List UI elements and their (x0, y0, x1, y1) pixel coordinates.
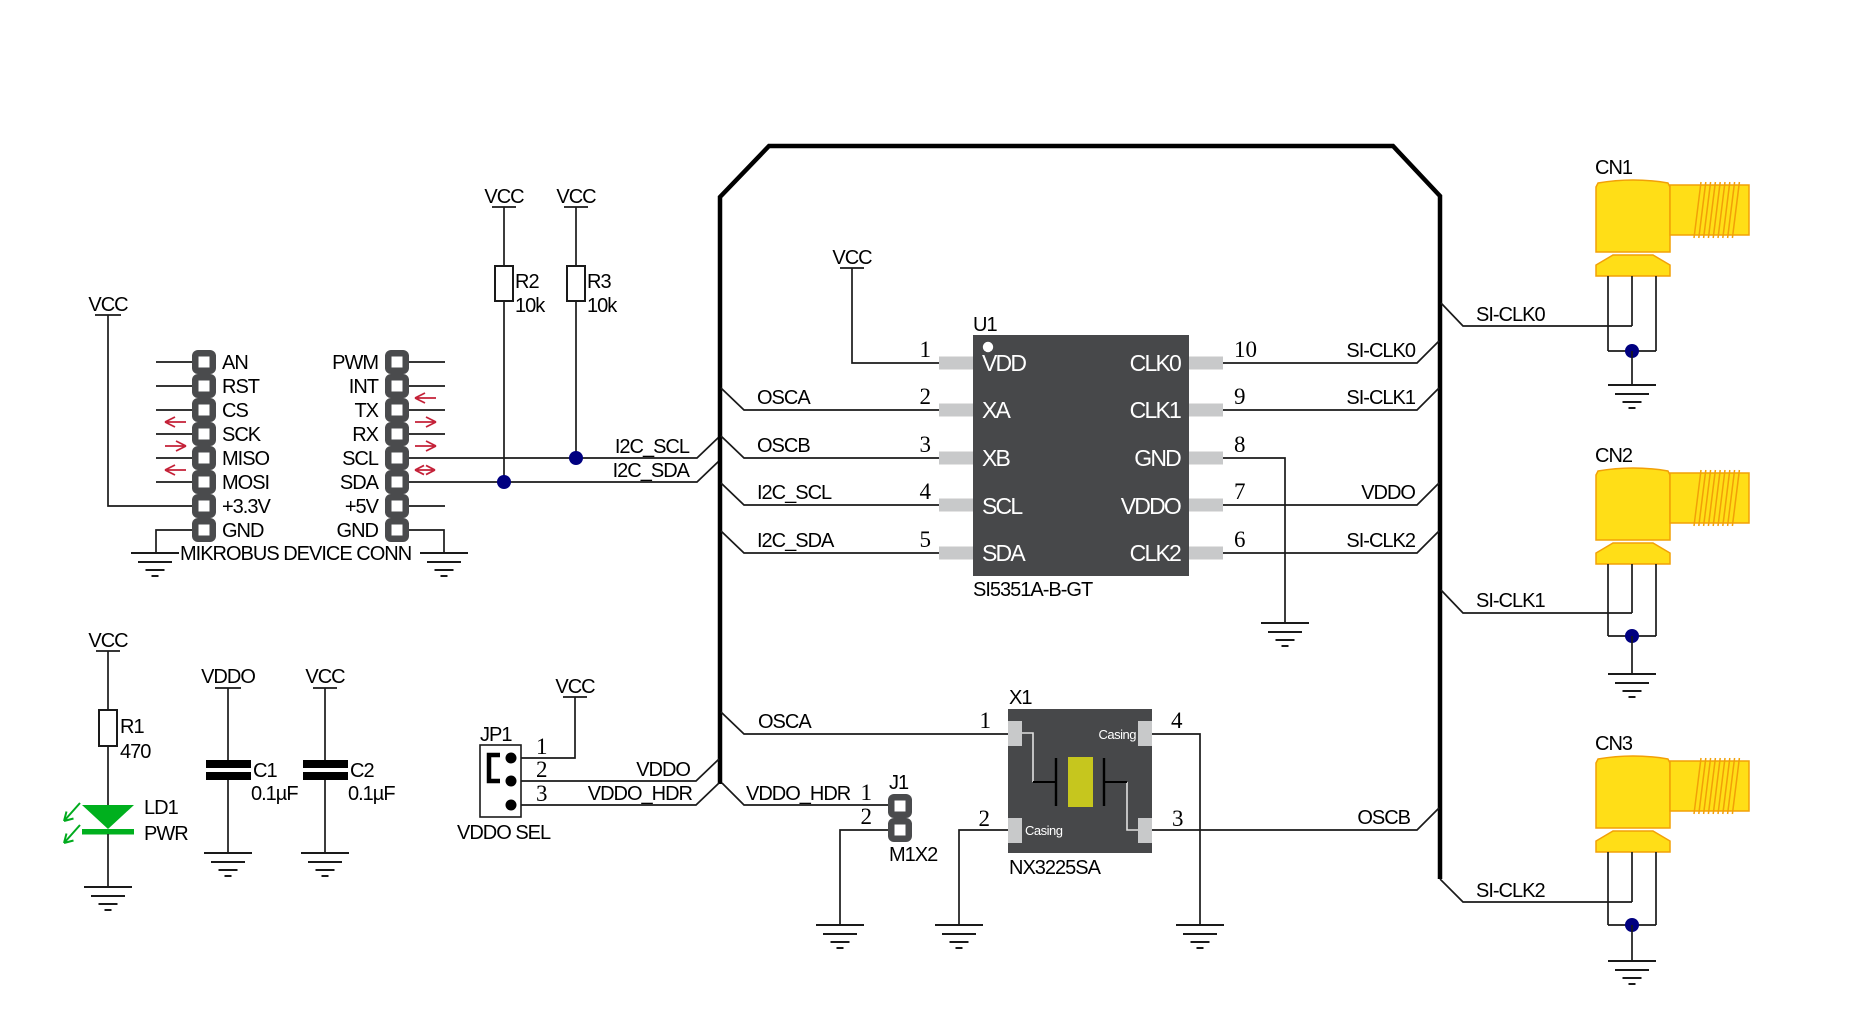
wire U1 pin 7 VDDO (1222, 482, 1439, 505)
connector CN2 (1595, 445, 1749, 636)
svg-text:SI-CLK0: SI-CLK0 (1346, 340, 1415, 362)
svg-text:SCL: SCL (982, 493, 1023, 519)
svg-text:SI-CLK1: SI-CLK1 (1476, 590, 1545, 612)
svg-text:CLK1: CLK1 (1130, 397, 1181, 423)
wire CN2 shield to ground (1631, 636, 1633, 674)
wire VCC to +3.3V pin (108, 315, 192, 506)
svg-text:XA: XA (982, 397, 1012, 423)
wire MOSI stub (156, 481, 192, 483)
ground CN3 (1608, 961, 1656, 984)
svg-text:LD1: LD1 (144, 797, 179, 819)
capacitor C1 (206, 760, 298, 805)
svg-text:1: 1 (980, 708, 992, 733)
svg-text:VDD: VDD (982, 350, 1026, 376)
svg-text:MISO: MISO (222, 448, 270, 470)
svg-text:VDDO: VDDO (201, 666, 255, 688)
junction CN3 shield (1625, 918, 1639, 932)
connector JP1 VDDO SEL (457, 724, 551, 844)
svg-text:10k: 10k (587, 295, 618, 317)
svg-text:MIKROBUS DEVICE CONN: MIKROBUS DEVICE CONN (180, 543, 411, 565)
wire U1 pin 9 SI-CLK1 (1222, 387, 1439, 410)
svg-text:R1: R1 (120, 716, 144, 738)
svg-text:SDA: SDA (340, 472, 380, 494)
arrow SCL out (415, 441, 436, 451)
svg-text:5: 5 (920, 527, 932, 552)
wire U1 pin 6 SI-CLK2 (1222, 530, 1439, 553)
connector CN3 (1595, 733, 1749, 925)
svg-text:1: 1 (536, 734, 548, 759)
junction CN1 shield (1625, 344, 1639, 358)
svg-text:CN3: CN3 (1595, 733, 1633, 755)
svg-text:3: 3 (920, 432, 932, 457)
svg-text:4: 4 (920, 479, 932, 504)
svg-text:CN2: CN2 (1595, 445, 1633, 467)
wire J1 pin 2 to ground (840, 830, 888, 925)
header J1 M1X2 (861, 772, 939, 866)
svg-text:6: 6 (1234, 527, 1246, 552)
arrow SDA bidir (415, 465, 435, 474)
svg-text:1: 1 (920, 337, 932, 362)
svg-text:J1: J1 (889, 772, 909, 794)
svg-text:+3.3V: +3.3V (222, 496, 271, 518)
svg-text:VCC: VCC (88, 294, 128, 316)
ground U1 pin 8 (1261, 623, 1309, 646)
capacitor C2 (303, 760, 395, 805)
svg-text:1: 1 (861, 780, 873, 805)
svg-text:SCL: SCL (342, 448, 379, 470)
wire VCC to LED (107, 651, 109, 805)
wire R2 vertical (503, 207, 505, 482)
arrow SCK in (165, 417, 186, 427)
svg-text:2: 2 (979, 806, 991, 831)
svg-text:R3: R3 (587, 271, 611, 293)
wire SI-CLK1 to CN2 (1441, 590, 1632, 613)
wire VDDO_HDR to J1 pin 1 (722, 783, 888, 805)
svg-text:I2C_SCL: I2C_SCL (757, 482, 832, 504)
svg-text:VDDO_HDR: VDDO_HDR (746, 783, 851, 805)
wire +5V stub (409, 505, 445, 507)
wire SCK stub (156, 433, 192, 435)
svg-text:RX: RX (352, 424, 378, 446)
arrow RX out (415, 417, 436, 427)
wire U1 pin 10 SI-CLK0 (1222, 340, 1439, 363)
svg-text:SI-CLK1: SI-CLK1 (1346, 387, 1415, 409)
svg-text:8: 8 (1234, 432, 1246, 457)
svg-text:VDDO SEL: VDDO SEL (457, 822, 551, 844)
svg-text:VDDO: VDDO (1361, 482, 1415, 504)
wire RST stub (156, 385, 192, 387)
svg-text:OSCB: OSCB (757, 435, 810, 457)
arrow TX in (415, 393, 436, 403)
ground CN1 (1608, 385, 1656, 408)
ground mikroBUS left (131, 553, 179, 576)
svg-text:0.1µF: 0.1µF (251, 783, 298, 805)
ground mikroBUS right (420, 553, 468, 576)
wire GND left header (156, 530, 192, 553)
wire C2 to ground (324, 780, 326, 853)
svg-text:VCC: VCC (484, 186, 524, 208)
svg-text:SCK: SCK (222, 424, 262, 446)
junction R2/SDA (497, 475, 511, 489)
svg-text:SI-CLK2: SI-CLK2 (1346, 530, 1415, 552)
wire X1 pin 2 to ground (959, 830, 1008, 925)
wire VDDO to C1 (227, 688, 229, 760)
power flag VCC (to +3.3V pin) (88, 294, 128, 316)
wire VCC to C2 (324, 688, 326, 760)
svg-text:GND: GND (1134, 445, 1181, 471)
svg-text:SI5351A-B-GT: SI5351A-B-GT (973, 579, 1093, 601)
ground C2 (301, 853, 349, 876)
arrow MOSI in (165, 465, 186, 475)
wire SI-CLK2 to CN3 (1440, 879, 1632, 902)
svg-text:CN1: CN1 (1595, 157, 1633, 179)
svg-text:X1: X1 (1009, 687, 1032, 709)
svg-text:VDDO: VDDO (636, 759, 690, 781)
wire AN stub (156, 361, 192, 363)
power flag VCC (C2) (305, 666, 345, 688)
svg-text:3: 3 (1172, 806, 1184, 831)
svg-text:I2C_SCL: I2C_SCL (615, 436, 690, 458)
svg-text:SDA: SDA (982, 540, 1026, 566)
svg-text:+5V: +5V (345, 496, 380, 518)
svg-text:PWM: PWM (332, 352, 378, 374)
wire OSCA to X1 pin 1 (721, 711, 1008, 734)
svg-text:R2: R2 (515, 271, 539, 293)
svg-text:2: 2 (536, 757, 548, 782)
power flag VCC (R2) (484, 186, 524, 208)
ground LD1 (84, 887, 132, 910)
op-amp U1 (IC SI5351A-B-GT) (939, 314, 1223, 601)
svg-text:2: 2 (920, 384, 932, 409)
wire PWM stub (409, 361, 445, 363)
svg-text:Casing: Casing (1099, 727, 1137, 742)
svg-text:NX3225SA: NX3225SA (1009, 857, 1102, 879)
wire INT stub (409, 385, 445, 387)
svg-text:I2C_SDA: I2C_SDA (613, 460, 691, 482)
wire OSCA to U1 pin 2 (721, 387, 940, 410)
wire JP1 pin 2 VDDO (511, 759, 719, 781)
resistor R3 (567, 266, 618, 317)
svg-text:3: 3 (536, 781, 548, 806)
wire OSCB to U1 pin 3 (721, 435, 940, 458)
svg-text:VDDO_HDR: VDDO_HDR (588, 783, 693, 805)
power flag VDDO (C1) (201, 666, 255, 688)
wire LED to ground (107, 834, 109, 887)
svg-text:470: 470 (120, 741, 151, 763)
wire CN1 shield to ground (1631, 351, 1633, 385)
resistor R2 (495, 266, 546, 317)
svg-text:U1: U1 (973, 314, 997, 336)
svg-text:M1X2: M1X2 (889, 844, 938, 866)
power flag VCC (R3) (556, 186, 596, 208)
svg-text:C2: C2 (350, 760, 374, 782)
wire C1 to ground (227, 780, 229, 853)
wire TX stub (409, 409, 445, 411)
svg-text:C1: C1 (253, 760, 277, 782)
wire JP1 pin 1 to VCC (511, 697, 575, 758)
svg-text:9: 9 (1234, 384, 1246, 409)
svg-text:AN: AN (222, 352, 248, 374)
wire GND right header (409, 530, 444, 553)
svg-text:VCC: VCC (305, 666, 345, 688)
arrow MISO out (165, 441, 186, 451)
LED LD1 PWR (64, 797, 188, 845)
svg-text:OSCA: OSCA (758, 711, 812, 733)
svg-text:OSCB: OSCB (1357, 807, 1410, 829)
wire CS stub (156, 409, 192, 411)
ground CN2 (1608, 674, 1656, 697)
svg-text:2: 2 (861, 804, 873, 829)
svg-text:10k: 10k (515, 295, 546, 317)
wire I2C_SCL to U1 pin 4 (721, 482, 940, 505)
svg-text:RST: RST (222, 376, 260, 398)
svg-text:JP1: JP1 (480, 724, 512, 746)
svg-text:0.1µF: 0.1µF (348, 783, 395, 805)
junction R3/SCL (569, 451, 583, 465)
junction CN2 shield (1625, 629, 1639, 643)
svg-text:SI-CLK0: SI-CLK0 (1476, 304, 1545, 326)
svg-text:INT: INT (349, 376, 379, 398)
power flag VCC (U1 VDD) (832, 247, 872, 269)
svg-text:Casing: Casing (1025, 823, 1063, 838)
svg-text:7: 7 (1234, 479, 1246, 504)
wire VCC to U1 pin 1 (852, 268, 940, 363)
header mikroBUS right column (332, 350, 409, 542)
connector CN1 (1595, 157, 1749, 351)
header mikroBUS left column (192, 350, 271, 542)
svg-text:GND: GND (337, 520, 379, 542)
wire JP1 pin 3 VDDO_HDR (511, 783, 719, 805)
svg-text:OSCA: OSCA (757, 387, 811, 409)
wire CN3 shield to ground (1631, 925, 1633, 961)
ground X1 pin 4 (1176, 925, 1224, 948)
svg-text:VDDO: VDDO (1121, 493, 1181, 519)
ground C1 (204, 853, 252, 876)
ground X1 pin 2 (935, 925, 983, 948)
svg-text:CLK2: CLK2 (1130, 540, 1181, 566)
wire I2C_SCL from header (409, 436, 720, 458)
svg-text:MOSI: MOSI (222, 472, 269, 494)
svg-text:TX: TX (354, 400, 378, 422)
resistor R1 (99, 710, 151, 763)
svg-text:PWR: PWR (144, 823, 188, 845)
svg-text:10: 10 (1234, 337, 1257, 362)
wire I2C_SDA to U1 pin 5 (721, 530, 940, 553)
wire R3 vertical (575, 207, 577, 458)
power flag VCC (R1) (88, 630, 128, 652)
svg-text:4: 4 (1171, 708, 1183, 733)
svg-text:VCC: VCC (556, 186, 596, 208)
wire RX stub (409, 433, 445, 435)
wire I2C_SDA from header (409, 460, 720, 482)
svg-text:SI-CLK2: SI-CLK2 (1476, 880, 1545, 902)
wire OSCB from X1 pin 3 (1152, 807, 1439, 830)
svg-text:VCC: VCC (555, 676, 595, 698)
svg-text:CS: CS (222, 400, 248, 422)
svg-text:CLK0: CLK0 (1130, 350, 1181, 376)
board outline (720, 146, 1440, 879)
svg-text:VCC: VCC (88, 630, 128, 652)
svg-text:GND: GND (222, 520, 264, 542)
wire SI-CLK0 to CN1 (1441, 303, 1632, 326)
svg-text:XB: XB (982, 445, 1011, 471)
wire MISO stub (156, 457, 192, 459)
power flag VCC (JP1) (555, 676, 595, 698)
wire X1 pin 4 to ground (1152, 734, 1200, 925)
svg-text:I2C_SDA: I2C_SDA (757, 530, 835, 552)
ground J1 (816, 925, 864, 948)
svg-text:VCC: VCC (832, 247, 872, 269)
wire U1 pin 8 GND (1222, 458, 1285, 623)
crystal X1 NX3225SA (1008, 687, 1152, 879)
